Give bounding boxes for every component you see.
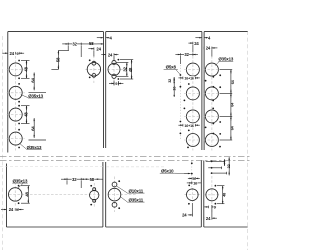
ext lines L1 plate row (66, 181, 68, 185)
dim 16+16 gap3 (182, 124, 184, 127)
dim 16+16 gap1 (182, 77, 184, 80)
L2 dot top-right (118, 180, 120, 182)
dim 64 C2-C3 (230, 93, 232, 116)
pilot hole A dot 4 (18, 101, 20, 103)
svg-text:Ø5x10: Ø5x10 (161, 169, 174, 174)
dim 48 R2 (217, 185, 224, 187)
cup bore C3 (35mm) (205, 110, 218, 123)
dim 24 cup to edge panel B (192, 42, 194, 45)
L1 plate screw hole bottom (93, 199, 96, 202)
dim 64 vertical A3-A4 (33, 118, 35, 138)
dim 4 gap A-B (101, 37, 104, 39)
svg-text:4: 4 (208, 35, 211, 40)
svg-text:64: 64 (30, 77, 35, 82)
cup bore R1 35mm (187, 189, 199, 201)
system hole dots gap2 B (184, 100, 186, 102)
L2 dot bottom-right (118, 207, 120, 209)
svg-text:Ø5x8: Ø5x8 (166, 65, 177, 70)
dim 24 plate offset (103, 54, 106, 56)
svg-text:48: 48 (128, 67, 133, 72)
ext lines C dims (220, 69, 233, 71)
cup bore B4 (35mm) (186, 134, 199, 147)
panel R2 bottom edge (204, 226, 248, 228)
leader A4 (20, 144, 27, 150)
pilot hole A dot 6 (18, 123, 20, 125)
plate dowel dot bottom-right (118, 78, 120, 80)
pilot hole A dot 8 (18, 147, 20, 149)
plate dowel dot top-right (118, 59, 120, 61)
svg-text:48: 48 (223, 193, 227, 197)
L1 plate screw hole top (93, 188, 96, 191)
L1 plate dot bottom-left (90, 204, 92, 206)
dim 48 vertical A1 (21, 60, 30, 62)
system holes constellation gap 2 (213, 123, 215, 125)
system hole dot B1 (180, 74, 182, 76)
R1 cup horizontal centerline (185, 194, 201, 196)
cup bore L2 35mm (108, 188, 121, 201)
panel B outline (top-middle carcase panel) (106, 31, 202, 33)
panel A vertical centerline (15, 56, 17, 151)
cup bore A2 (35mm) (9, 86, 22, 99)
R1 cup vertical centerline (191, 188, 193, 202)
svg-text:58: 58 (55, 57, 60, 62)
system hole dot B3 (180, 121, 182, 123)
dim 16 rotated small (173, 85, 175, 94)
hinge cup horizontal centerline (85, 68, 102, 70)
plate screw hole top (112, 60, 116, 64)
svg-text:Ø10x11: Ø10x11 (129, 188, 144, 193)
leader pilot holes (176, 70, 180, 75)
R1 dot above (188, 185, 190, 187)
pilot hole A dot 2 (18, 77, 20, 79)
R2 cup horizontal centerline (204, 194, 220, 196)
cup bore L1 35mm (9, 188, 22, 201)
leader cup C1 (215, 62, 219, 66)
L1 cup vertical centerline (14, 182, 16, 207)
L2 dowel hole bottom 10mm (112, 202, 117, 207)
svg-text:16+16: 16+16 (184, 77, 193, 81)
system hole dots gap2 C (212, 100, 214, 102)
dot below B c4 (187, 147, 189, 149)
L1 plate dot top-left (90, 185, 92, 187)
svg-text:9: 9 (214, 204, 217, 209)
svg-text:Ø35x13: Ø35x13 (27, 145, 42, 150)
svg-text:32: 32 (227, 164, 231, 168)
leader cup L2 (121, 197, 127, 202)
hinge cup bore 35mm (87, 63, 100, 76)
panel C outline (top-right panel) (204, 31, 248, 33)
dim 24 edge offset panel A (5, 52, 8, 54)
plate screw hole bottom (112, 74, 116, 78)
R2 cluster line3 (212, 172, 227, 174)
L1 plate body circle (90, 190, 99, 199)
panel R2 left edge (203, 161, 205, 228)
panel A outline (top-left door panel) (8, 31, 104, 33)
pilot hole A dot 7 (18, 129, 20, 131)
panel L2 bottom edge (106, 226, 202, 228)
cup bore B1 (35mm) (186, 63, 199, 76)
panel L2 left edge (105, 162, 107, 227)
R1 pilot dot upper (191, 162, 193, 164)
dim 9 L1 (16, 208, 19, 212)
panel L2 faint top break (106, 166, 164, 168)
R2 vdim 32 (228, 157, 230, 175)
R2 top holes cluster dots (211, 161, 213, 163)
R1 dot below (188, 203, 190, 205)
leader L1 cup (17, 183, 23, 188)
dim 24 panel C cup offset (203, 47, 205, 50)
panel L2 right edge (200, 161, 202, 228)
cup bore B3 (35mm) (186, 110, 199, 123)
svg-text:4: 4 (110, 35, 113, 40)
horizontal break separator upper (0, 156, 250, 158)
dim 48 vertical A3 (21, 105, 30, 107)
dim 48 vertical L1 (21, 185, 30, 187)
svg-text:9: 9 (115, 81, 118, 86)
R2 dot above (215, 185, 217, 187)
svg-text:Ø35x13: Ø35x13 (218, 57, 233, 62)
mid system hole dot gap1 (188, 83, 190, 85)
mounting plate horizontal centerline (108, 68, 134, 70)
L1 pilot dot top (18, 185, 20, 187)
mounting plate vertical centerline (113, 57, 115, 85)
svg-text:64: 64 (231, 79, 235, 84)
R1 pilot dot mid (191, 173, 193, 175)
hinge cup vertical centerline (93, 56, 95, 84)
hinge cup screw hole top (92, 61, 96, 65)
dim 32 plate screw spacing (116, 62, 128, 64)
dim 58 hinge row (89, 41, 94, 45)
dim 32 hinge row (66, 43, 69, 45)
dot below C c4 (219, 146, 221, 148)
cup bore A4 (35mm) (9, 132, 22, 145)
svg-text:16+16: 16+16 (184, 124, 193, 128)
horizontal break separator lower (0, 159, 250, 161)
dim 24 R1 cup to edge (191, 214, 193, 217)
cup bore C1 (35mm) (205, 63, 218, 76)
svg-text:Ø35x13: Ø35x13 (28, 93, 43, 98)
svg-text:Ø35x11: Ø35x11 (129, 197, 144, 202)
dim 64 C1-C2 (230, 70, 232, 94)
cup bore A3 (35mm) (9, 108, 22, 121)
dim 24 cup to edge (93, 47, 95, 50)
mounting plate body circle (108, 63, 120, 75)
leader pilot 5x10 (188, 173, 191, 175)
R1 pilot centerline dotted (191, 161, 193, 189)
pilot hole column centerline (179, 65, 181, 140)
dim 24 R2 (203, 217, 205, 220)
L2 cup horizontal centerline (108, 194, 137, 196)
dim 24 edge offset L1 (4, 209, 7, 211)
panel C cup column centerline (211, 56, 213, 151)
dim 32 rotated small (173, 77, 175, 82)
cup bore C2 (35mm) (205, 87, 218, 100)
ext lines hinge row (67, 46, 69, 51)
system hole dot B4 (180, 133, 182, 135)
L2 cup vertical centerline (114, 177, 116, 213)
dim 4 gap B-C (199, 37, 202, 39)
L1 pilot dot bottom (18, 202, 20, 204)
panel L1 bottom edge (7, 226, 103, 228)
cup bore R2 35mm (206, 189, 218, 201)
cup bore A1 (35mm) (9, 63, 22, 76)
mid system hole dot gap3 (188, 130, 190, 132)
R2 dot below (215, 203, 217, 205)
dim 64 C3-C4 (230, 116, 232, 140)
dim 9 R1 (191, 177, 193, 180)
svg-text:32: 32 (168, 79, 172, 83)
L1 plate vertical centerline (93, 183, 95, 208)
dim 9 panel A (16, 51, 19, 55)
svg-text:48: 48 (25, 191, 30, 196)
svg-text:48: 48 (24, 112, 29, 117)
R2 cluster line1 (206, 160, 225, 162)
R2 cluster line2 (208, 167, 221, 169)
svg-text:16: 16 (172, 87, 176, 91)
dashed page border left (2, 36, 4, 250)
cup bore C4 (35mm) (205, 134, 218, 147)
svg-text:64: 64 (231, 125, 235, 130)
panel L1 left edge (6, 164, 8, 228)
hinge cup screw hole bottom (92, 74, 96, 78)
svg-text:64: 64 (30, 126, 35, 131)
dim 9 R2 (207, 206, 209, 209)
ext cup center (93, 50, 95, 56)
pilot hole A dot 5 (18, 105, 20, 107)
svg-text:Ø35x13: Ø35x13 (13, 178, 28, 183)
R2 vdim small (224, 159, 226, 165)
svg-text:64: 64 (231, 102, 235, 107)
dim 9 plate to dowel (113, 82, 115, 85)
system holes constellation gap 1 (213, 76, 215, 78)
L1 long horizontal centerline (9, 193, 100, 195)
faint break line above bottom band (0, 166, 103, 168)
dashed page border right (247, 31, 249, 250)
leader dowel L2 (117, 186, 127, 193)
svg-text:48: 48 (24, 66, 29, 71)
system hole dot B2 (180, 86, 182, 88)
dim 64 vertical A1-A2 (33, 73, 35, 91)
hinge cup dowel dot bottom-left (89, 77, 91, 79)
panel L1 right edge (102, 162, 104, 227)
dim 58 L1 plate row (81, 178, 103, 180)
R2 cluster end ticks (223, 160, 225, 163)
dim 58 vertical left of cup (58, 50, 69, 52)
pilot hole A dot 1 (18, 60, 20, 62)
dim 16 R1 (191, 182, 193, 185)
cup bore B2 (35mm) (186, 87, 199, 100)
dim 32 L1 plate row (64, 178, 67, 180)
panel B cup column centerline (192, 56, 194, 151)
hinge cup dowel dot top-left (89, 59, 91, 61)
dim 48 plate dowel spacing (120, 59, 133, 61)
leader A2 (21, 95, 28, 98)
pilot hole A dot 3 (18, 83, 20, 85)
dim 32 cup offset (178, 54, 181, 56)
L2 dowel hole top 10mm (112, 182, 117, 187)
R2 cup vertical centerline (211, 176, 213, 213)
